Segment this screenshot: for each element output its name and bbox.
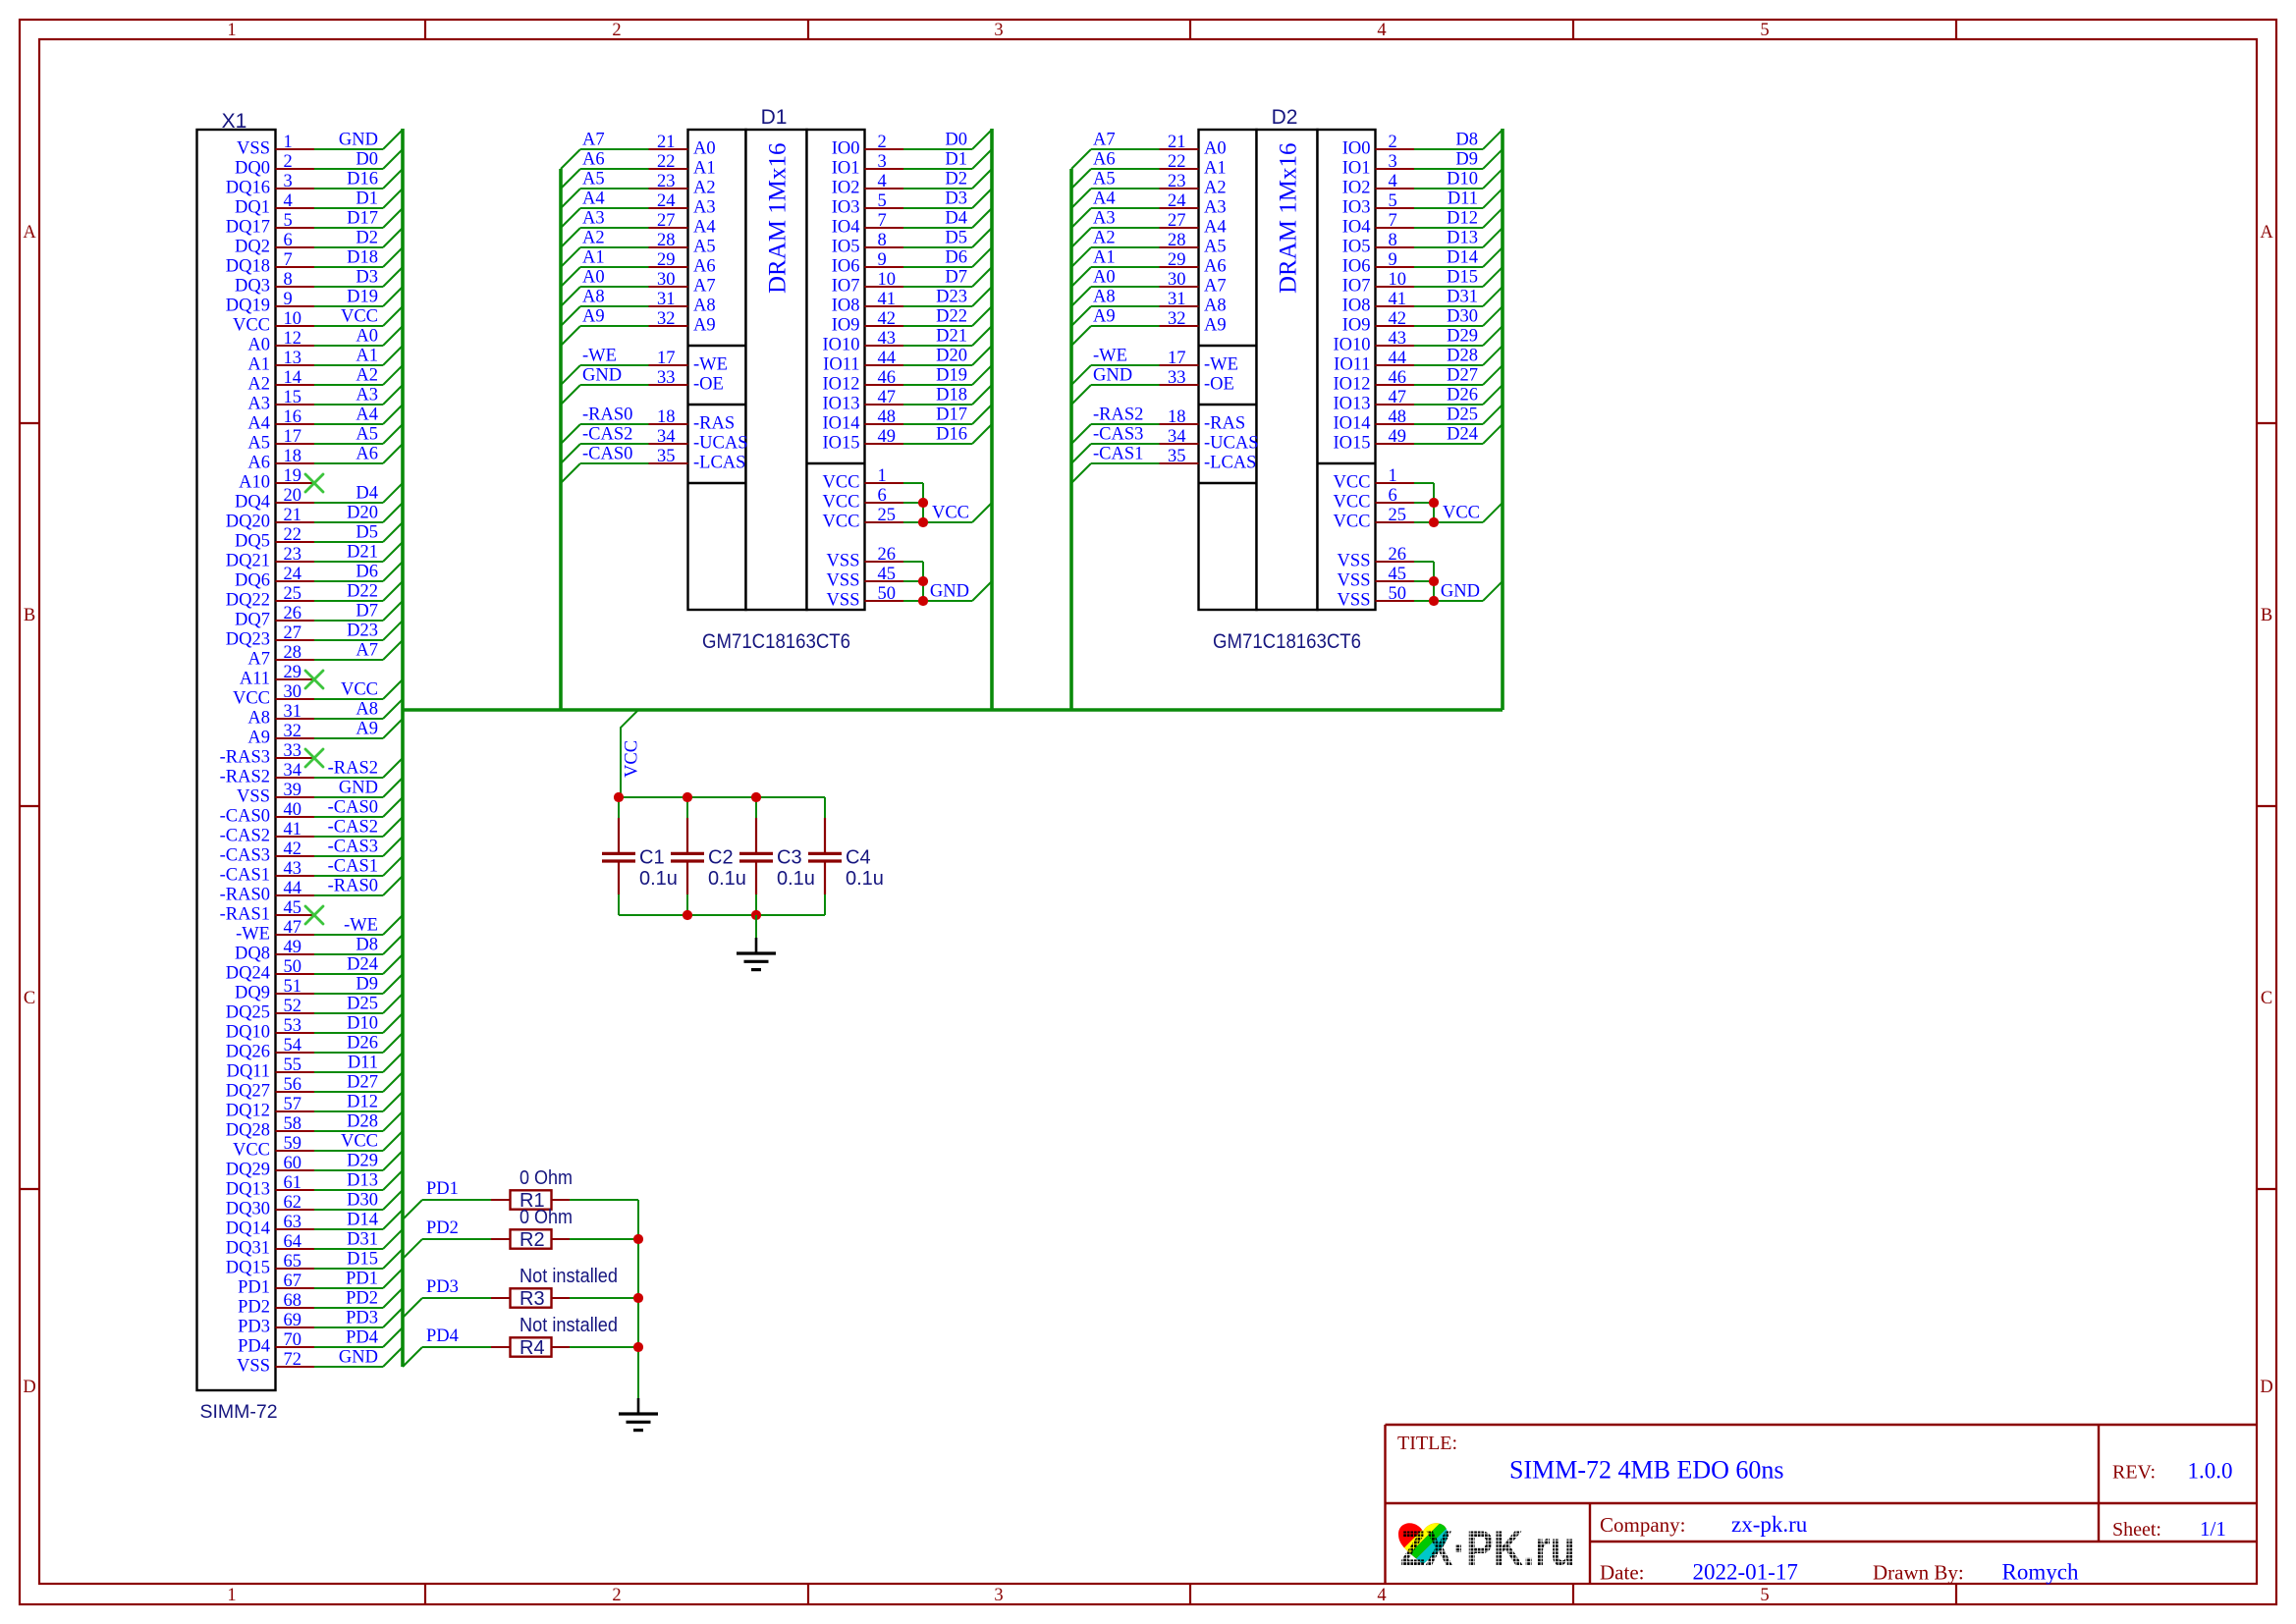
- svg-text:-WE: -WE: [693, 355, 728, 375]
- svg-text:6: 6: [1389, 486, 1397, 506]
- svg-text:45: 45: [284, 898, 302, 918]
- svg-text:21: 21: [1168, 133, 1186, 152]
- svg-text:DQ0: DQ0: [235, 159, 270, 179]
- svg-text:10: 10: [878, 270, 897, 290]
- svg-text:53: 53: [284, 1016, 302, 1036]
- svg-text:A0: A0: [247, 336, 270, 355]
- svg-text:43: 43: [284, 859, 302, 879]
- X1 pin 16 (A4) wire to net A4: [247, 405, 403, 434]
- svg-text:67: 67: [284, 1272, 302, 1291]
- svg-text:-RAS0: -RAS0: [582, 406, 632, 425]
- svg-text:-RAS1: -RAS1: [220, 905, 270, 925]
- svg-text:62: 62: [284, 1193, 302, 1213]
- svg-text:A6: A6: [693, 257, 716, 277]
- svg-text:A3: A3: [247, 395, 270, 414]
- resistor R4 Not installed: [491, 1315, 638, 1359]
- svg-text:44: 44: [1389, 349, 1407, 368]
- svg-text:34: 34: [657, 427, 676, 447]
- svg-text:C1: C1: [639, 847, 665, 869]
- X1 pin 24 (DQ6) wire to net D6: [235, 562, 403, 591]
- svg-text:Drawn By:: Drawn By:: [1873, 1561, 1964, 1585]
- X1 pin 28 (A7) wire to net A7: [247, 640, 403, 670]
- svg-text:30: 30: [1168, 270, 1186, 290]
- X1 pin 4 (DQ1) wire to net D1: [235, 189, 403, 218]
- D2 pin 5 (IO3) net D11: [1342, 189, 1503, 218]
- svg-text:D11: D11: [348, 1054, 378, 1073]
- svg-text:A1: A1: [355, 347, 378, 366]
- svg-text:4: 4: [1377, 1586, 1386, 1605]
- svg-text:1: 1: [878, 466, 887, 486]
- svg-text:7: 7: [878, 211, 887, 231]
- svg-text:IO14: IO14: [1333, 414, 1370, 434]
- svg-text:50: 50: [1389, 584, 1407, 604]
- svg-text:-CAS1: -CAS1: [328, 857, 378, 877]
- X1 pin 54 (DQ26) wire to net D26: [226, 1033, 403, 1062]
- D2 pin 48 (IO14) net D25: [1333, 405, 1503, 434]
- svg-text:D17: D17: [347, 209, 378, 229]
- svg-text:A10: A10: [239, 473, 270, 493]
- svg-text:DQ3: DQ3: [235, 277, 270, 297]
- svg-text:IO15: IO15: [1333, 434, 1370, 454]
- svg-text:A6: A6: [582, 150, 605, 170]
- svg-text:1: 1: [1389, 466, 1397, 486]
- svg-text:D28: D28: [347, 1112, 378, 1132]
- svg-text:6: 6: [878, 486, 887, 506]
- X1 pin 27 (DQ23) wire to net D23: [226, 621, 403, 650]
- D2 VSS pins 26,45,50 wires to net GND: [1338, 545, 1503, 611]
- svg-text:IO11: IO11: [823, 355, 859, 375]
- svg-text:VCC: VCC: [822, 473, 859, 493]
- X1 pin 62 (DQ30) wire to net D30: [226, 1190, 403, 1219]
- svg-text:24: 24: [657, 191, 676, 211]
- svg-text:D27: D27: [347, 1073, 378, 1093]
- svg-text:DQ23: DQ23: [226, 630, 270, 650]
- svg-text:VSS: VSS: [1338, 591, 1371, 611]
- svg-text:DQ2: DQ2: [235, 238, 270, 257]
- svg-text:B: B: [2261, 606, 2272, 625]
- svg-text:2: 2: [284, 152, 293, 172]
- X1 pin 19 (A10) no-connect: [239, 466, 323, 493]
- svg-text:26: 26: [1389, 545, 1407, 565]
- svg-text:D25: D25: [347, 995, 378, 1014]
- svg-text:3: 3: [878, 152, 887, 172]
- svg-text:4: 4: [284, 191, 293, 211]
- X1 pin 61 (DQ13) wire to net D13: [226, 1170, 403, 1200]
- svg-text:3: 3: [1389, 152, 1397, 172]
- svg-text:8: 8: [284, 270, 293, 290]
- D1 pin 17 (-WE) net -WE: [561, 347, 728, 386]
- svg-text:DQ22: DQ22: [226, 591, 270, 611]
- D2 pin 43 (IO10) net D29: [1333, 326, 1503, 355]
- D1 pin 10 (IO7) net D7: [832, 267, 992, 297]
- X1 pin 44 (-RAS0) wire to net -RAS0: [220, 876, 403, 905]
- D2 junction dots on VCC net: [1429, 498, 1439, 508]
- bus: D1 right vertical bus: [990, 129, 994, 710]
- svg-text:PD4: PD4: [346, 1328, 378, 1348]
- svg-text:A7: A7: [1093, 131, 1116, 150]
- svg-text:-CAS0: -CAS0: [582, 445, 632, 464]
- D2 pin 49 (IO15) net D24: [1333, 424, 1503, 454]
- svg-text:A2: A2: [582, 229, 605, 248]
- svg-text:A6: A6: [1204, 257, 1227, 277]
- svg-text:D15: D15: [347, 1250, 378, 1270]
- svg-text:49: 49: [1389, 427, 1407, 447]
- svg-text:8: 8: [878, 231, 887, 250]
- D2 pin 21 (A0) net A7: [1071, 131, 1227, 170]
- svg-text:D16: D16: [347, 170, 378, 189]
- svg-text:DQ17: DQ17: [226, 218, 270, 238]
- bus: D1 left vertical bus: [559, 169, 563, 710]
- svg-text:DQ18: DQ18: [226, 257, 270, 277]
- svg-text:C: C: [24, 989, 35, 1008]
- svg-text:PD4: PD4: [426, 1326, 459, 1346]
- X1 pin 72 (VSS) wire to net GND: [237, 1347, 403, 1377]
- svg-text:VCC: VCC: [233, 1141, 270, 1161]
- svg-text:63: 63: [284, 1213, 302, 1232]
- svg-text:3: 3: [994, 1586, 1003, 1605]
- X1 pin 31 (A8) wire to net A8: [247, 699, 403, 729]
- svg-text:D13: D13: [1447, 229, 1478, 248]
- svg-text:C: C: [2261, 989, 2272, 1008]
- svg-text:D8: D8: [355, 936, 378, 955]
- ground symbol (capacitor rail): [755, 938, 758, 953]
- svg-text:41: 41: [284, 820, 302, 839]
- D1 pin 44 (IO11) net D20: [823, 346, 992, 375]
- svg-text:4: 4: [878, 172, 887, 191]
- X1 pin 20 (DQ4) wire to net D4: [235, 483, 403, 513]
- svg-text:IO0: IO0: [1342, 139, 1371, 159]
- svg-text:A8: A8: [1204, 297, 1227, 316]
- svg-text:25: 25: [878, 506, 897, 525]
- svg-text:3: 3: [994, 21, 1003, 40]
- svg-text:60: 60: [284, 1154, 302, 1173]
- svg-text:A0: A0: [355, 327, 378, 347]
- svg-text:-CAS3: -CAS3: [220, 846, 270, 866]
- svg-text:35: 35: [1168, 447, 1186, 466]
- svg-text:D2: D2: [945, 170, 967, 189]
- D1 pin 28 (A5) net A2: [561, 229, 716, 268]
- svg-text:IO5: IO5: [832, 238, 860, 257]
- X1 pin 49 (DQ8) wire to net D8: [235, 935, 403, 964]
- svg-text:D0: D0: [945, 131, 967, 150]
- svg-text:A2: A2: [693, 179, 716, 198]
- svg-text:44: 44: [284, 879, 302, 898]
- svg-text:IO8: IO8: [832, 297, 860, 316]
- D1 pin 41 (IO8) net D23: [832, 287, 992, 316]
- svg-text:4: 4: [1377, 21, 1386, 40]
- svg-text:-WE: -WE: [344, 916, 378, 936]
- D1 pin 30 (A7) net A0: [561, 268, 716, 307]
- svg-text:-LCAS: -LCAS: [1204, 454, 1256, 473]
- svg-text:VSS: VSS: [1338, 571, 1371, 591]
- svg-text:PD2: PD2: [426, 1218, 459, 1238]
- svg-text:A5: A5: [582, 170, 605, 189]
- svg-text:47: 47: [1389, 388, 1407, 407]
- svg-text:A7: A7: [582, 131, 605, 150]
- svg-text:D4: D4: [945, 209, 967, 229]
- X1 pin 47 (-WE) wire to net -WE: [236, 915, 403, 945]
- svg-text:D7: D7: [945, 268, 967, 288]
- svg-text:42: 42: [284, 839, 302, 859]
- svg-text:DRAM 1Mx16: DRAM 1Mx16: [765, 143, 792, 295]
- X1 pin 8 (DQ3) wire to net D3: [235, 267, 403, 297]
- svg-text:DQ24: DQ24: [226, 964, 270, 984]
- svg-text:D9: D9: [355, 975, 378, 995]
- svg-text:52: 52: [284, 997, 302, 1016]
- wire: capacitor VCC top rail: [619, 796, 825, 798]
- svg-text:A1: A1: [1204, 159, 1227, 179]
- svg-text:IO8: IO8: [1342, 297, 1371, 316]
- svg-text:VSS: VSS: [827, 552, 860, 571]
- D2 pin 24 (A3) net A4: [1071, 189, 1227, 229]
- svg-text:IO10: IO10: [822, 336, 859, 355]
- svg-text:D1: D1: [761, 106, 788, 129]
- svg-text:49: 49: [284, 938, 302, 957]
- X1 pin 70 (PD4) wire to net PD4: [238, 1327, 403, 1357]
- svg-text:A5: A5: [1204, 238, 1227, 257]
- svg-text:DQ1: DQ1: [235, 198, 270, 218]
- DRAM chip D2 GM71C18163CT6 body: [1199, 106, 1376, 653]
- logo zx-pk.ru (pixel heart with rainbow stripes): [1389, 1507, 1575, 1583]
- X1 pin 22 (DQ5) wire to net D5: [235, 522, 403, 552]
- svg-text:IO6: IO6: [1342, 257, 1371, 277]
- X1 pin 15 (A3) wire to net A3: [247, 385, 403, 414]
- svg-text:C4: C4: [846, 847, 871, 869]
- svg-text:-LCAS: -LCAS: [693, 454, 745, 473]
- D2 pin 46 (IO12) net D27: [1333, 365, 1503, 395]
- svg-text:DQ20: DQ20: [226, 513, 270, 532]
- svg-text:A6: A6: [1093, 150, 1116, 170]
- svg-text:A8: A8: [1093, 288, 1116, 307]
- D1 pin 22 (A1) net A6: [561, 150, 716, 189]
- D1 pin 9 (IO6) net D6: [832, 247, 992, 277]
- svg-text:14: 14: [284, 368, 302, 388]
- svg-text:54: 54: [284, 1036, 302, 1056]
- svg-text:D22: D22: [347, 582, 378, 602]
- svg-text:A4: A4: [1093, 189, 1116, 209]
- svg-text:D8: D8: [1455, 131, 1478, 150]
- svg-text:31: 31: [1168, 290, 1186, 309]
- svg-text:D5: D5: [355, 523, 378, 543]
- D2 pin 35 (-LCAS) net -CAS1: [1071, 445, 1256, 484]
- svg-text:2: 2: [878, 133, 887, 152]
- svg-text:-UCAS: -UCAS: [693, 434, 748, 454]
- D1 pin 4 (IO2) net D2: [832, 169, 992, 198]
- D2 pin 17 (-WE) net -WE: [1071, 347, 1238, 386]
- capacitor C1 0.1u: [602, 797, 678, 915]
- svg-text:34: 34: [284, 761, 302, 781]
- wire: stem to capacitor ground: [755, 915, 757, 938]
- svg-text:D18: D18: [347, 248, 378, 268]
- svg-text:-OE: -OE: [1204, 375, 1234, 395]
- D1 pin 8 (IO5) net D5: [832, 228, 992, 257]
- svg-text:D31: D31: [347, 1230, 378, 1250]
- svg-text:A4: A4: [693, 218, 716, 238]
- svg-text:D: D: [2260, 1378, 2272, 1397]
- svg-text:D11: D11: [1448, 189, 1478, 209]
- svg-text:GND: GND: [339, 779, 378, 798]
- svg-text:-RAS2: -RAS2: [328, 759, 378, 779]
- svg-text:55: 55: [284, 1056, 302, 1075]
- svg-text:58: 58: [284, 1114, 302, 1134]
- D1 pin 27 (A4) net A3: [561, 209, 716, 248]
- svg-text:VCC: VCC: [822, 513, 859, 532]
- svg-text:D21: D21: [347, 543, 378, 563]
- bus: D2 right vertical bus: [1501, 129, 1504, 710]
- svg-text:A0: A0: [1204, 139, 1227, 159]
- X1 pin 21 (DQ20) wire to net D20: [226, 503, 403, 532]
- capacitor C3 0.1u: [739, 797, 815, 915]
- X1 pin 25 (DQ22) wire to net D22: [226, 581, 403, 611]
- svg-text:12: 12: [284, 329, 302, 349]
- svg-text:D29: D29: [347, 1152, 378, 1171]
- svg-text:A3: A3: [693, 198, 716, 218]
- svg-text:57: 57: [284, 1095, 302, 1114]
- X1 pin 2 (DQ0) wire to net D0: [235, 149, 403, 179]
- svg-text:DQ6: DQ6: [235, 571, 270, 591]
- svg-text:A1: A1: [247, 355, 270, 375]
- svg-text:A1: A1: [1093, 248, 1116, 268]
- svg-text:VCC: VCC: [1333, 473, 1370, 493]
- svg-text:35: 35: [657, 447, 676, 466]
- X1 pin 65 (DQ15) wire to net D15: [226, 1249, 403, 1278]
- svg-text:D1: D1: [945, 150, 967, 170]
- svg-text:-RAS0: -RAS0: [220, 886, 270, 905]
- svg-text:SIMM-72 4MB EDO 60ns: SIMM-72 4MB EDO 60ns: [1509, 1456, 1784, 1485]
- svg-text:0 Ohm: 0 Ohm: [519, 1167, 573, 1189]
- svg-text:-CAS2: -CAS2: [220, 827, 270, 846]
- svg-text:D3: D3: [355, 268, 378, 288]
- svg-text:A4: A4: [247, 414, 270, 434]
- X1 pin 32 (A9) wire to net A9: [247, 719, 403, 748]
- svg-text:VCC: VCC: [822, 493, 859, 513]
- D1 pin 23 (A2) net A5: [561, 170, 716, 209]
- svg-text:18: 18: [284, 447, 302, 466]
- svg-text:D12: D12: [347, 1093, 378, 1112]
- svg-text:-RAS: -RAS: [693, 414, 735, 434]
- svg-text:VSS: VSS: [1338, 552, 1371, 571]
- svg-text:19: 19: [284, 466, 302, 486]
- svg-text:28: 28: [284, 643, 302, 663]
- X1 pin 14 (A2) wire to net A2: [247, 365, 403, 395]
- svg-text:-RAS3: -RAS3: [220, 748, 270, 768]
- X1 pin 45 (-RAS1) no-connect: [220, 898, 323, 925]
- svg-text:IO2: IO2: [1342, 179, 1371, 198]
- svg-text:D13: D13: [347, 1171, 378, 1191]
- D2 pin 2 (IO0) net D8: [1342, 130, 1503, 159]
- svg-text:D20: D20: [936, 347, 967, 366]
- svg-text:A0: A0: [693, 139, 716, 159]
- svg-text:25: 25: [284, 584, 302, 604]
- svg-text:5: 5: [1760, 1586, 1769, 1605]
- svg-text:PD2: PD2: [238, 1298, 270, 1318]
- svg-text:D26: D26: [1447, 386, 1478, 406]
- svg-text:5: 5: [1760, 21, 1769, 40]
- svg-text:D19: D19: [347, 288, 378, 307]
- svg-text:32: 32: [657, 309, 676, 329]
- D2 pin 7 (IO4) net D12: [1342, 208, 1503, 238]
- D1 pin 3 (IO1) net D1: [832, 149, 992, 179]
- D1 pin 42 (IO9) net D22: [832, 306, 992, 336]
- svg-text:27: 27: [284, 623, 302, 643]
- svg-text:Sheet:: Sheet:: [2112, 1519, 2161, 1541]
- svg-text:31: 31: [657, 290, 676, 309]
- svg-text:A11: A11: [240, 670, 270, 689]
- svg-text:A5: A5: [247, 434, 270, 454]
- svg-text:1: 1: [284, 133, 293, 152]
- resistor R1 0 Ohm: [491, 1167, 638, 1212]
- svg-text:IO0: IO0: [832, 139, 860, 159]
- svg-text:REV:: REV:: [2112, 1462, 2156, 1484]
- svg-text:D2: D2: [1272, 106, 1298, 129]
- svg-text:21: 21: [657, 133, 676, 152]
- X1 pin 64 (DQ31) wire to net D31: [226, 1229, 403, 1259]
- svg-text:IO10: IO10: [1333, 336, 1370, 355]
- svg-text:GND: GND: [1441, 582, 1480, 602]
- svg-text:IO9: IO9: [832, 316, 860, 336]
- svg-text:-RAS0: -RAS0: [328, 877, 378, 896]
- svg-text:A8: A8: [693, 297, 716, 316]
- svg-text:VSS: VSS: [827, 571, 860, 591]
- svg-text:5: 5: [878, 191, 887, 211]
- D2 pin 34 (-UCAS) net -CAS3: [1071, 425, 1259, 464]
- D2 pin 10 (IO7) net D15: [1342, 267, 1503, 297]
- svg-text:IO1: IO1: [832, 159, 860, 179]
- svg-text:26: 26: [284, 604, 302, 623]
- D1 pin 21 (A0) net A7: [561, 131, 716, 170]
- D1 pin 18 (-RAS) net -RAS0: [561, 406, 735, 445]
- svg-text:9: 9: [284, 290, 293, 309]
- D1 pin 2 (IO0) net D0: [832, 130, 992, 159]
- svg-text:8: 8: [1389, 231, 1397, 250]
- svg-text:IO14: IO14: [822, 414, 859, 434]
- svg-text:17: 17: [1168, 349, 1186, 368]
- svg-text:DQ16: DQ16: [226, 179, 270, 198]
- svg-text:Date:: Date:: [1600, 1561, 1644, 1585]
- svg-text:56: 56: [284, 1075, 302, 1095]
- svg-text:GND: GND: [1093, 366, 1132, 386]
- svg-text:IO7: IO7: [832, 277, 860, 297]
- svg-text:GND: GND: [582, 366, 622, 386]
- svg-text:A7: A7: [1204, 277, 1227, 297]
- svg-text:IO1: IO1: [1342, 159, 1371, 179]
- svg-text:A2: A2: [1093, 229, 1116, 248]
- svg-text:DQ21: DQ21: [226, 552, 270, 571]
- svg-text:DQ4: DQ4: [235, 493, 270, 513]
- X1 pin 42 (-CAS3) wire to net -CAS3: [220, 837, 403, 866]
- svg-text:A9: A9: [582, 307, 605, 327]
- svg-text:50: 50: [878, 584, 897, 604]
- X1 pin 58 (DQ28) wire to net D28: [226, 1111, 403, 1141]
- svg-text:IO2: IO2: [832, 179, 860, 198]
- svg-text:A7: A7: [693, 277, 716, 297]
- svg-text:D9: D9: [1455, 150, 1478, 170]
- svg-text:22: 22: [284, 525, 302, 545]
- svg-text:DQ12: DQ12: [226, 1102, 270, 1121]
- X1 pin 26 (DQ7) wire to net D7: [235, 601, 403, 630]
- D2 pin 42 (IO9) net D30: [1342, 306, 1503, 336]
- svg-text:3: 3: [284, 172, 293, 191]
- D1 pin 31 (A8) net A8: [561, 288, 716, 327]
- svg-text:IO15: IO15: [822, 434, 859, 454]
- X1 pin 51 (DQ9) wire to net D9: [235, 974, 403, 1003]
- svg-text:20: 20: [284, 486, 302, 506]
- svg-text:17: 17: [284, 427, 302, 447]
- svg-text:43: 43: [1389, 329, 1407, 349]
- svg-text:Not installed: Not installed: [519, 1266, 618, 1287]
- svg-text:0.1u: 0.1u: [846, 868, 884, 890]
- svg-text:D27: D27: [1447, 366, 1478, 386]
